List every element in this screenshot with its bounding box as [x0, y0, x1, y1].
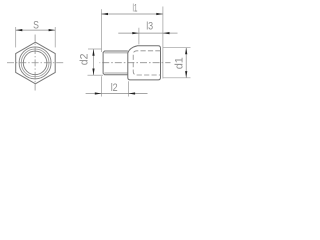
- dimension l2 left arrow tail: [86, 93, 102, 95]
- dimension d1 dimension line: [185, 48, 187, 78]
- dimension d1 down arrowhead: [185, 71, 187, 78]
- dimension S dimension line: [16, 29, 56, 31]
- svg-text:S: S: [33, 20, 39, 32]
- dimension l3 dimension line: [139, 32, 163, 34]
- hex body outline (front view): [16, 42, 56, 84]
- dimension l3 left arrowhead: [132, 32, 139, 34]
- dimension l1/l3 shared right extension line: [162, 7, 164, 79]
- dimension d2 dimension line: [93, 49, 95, 75]
- dimension l1 left extension line: [100, 9, 102, 52]
- dimension S right arrowhead: [49, 29, 56, 31]
- stud thread minor line bottom: [104, 72, 127, 74]
- thread major circle (front view middle circle): [21, 49, 49, 77]
- dimension d1 bottom extension line: [163, 77, 191, 79]
- svg-text:d2: d2: [79, 54, 91, 66]
- dimension l1 right arrowhead: [156, 13, 163, 15]
- dimension l2 right extension line: [128, 81, 130, 96]
- dimension S left extension line: [15, 27, 17, 47]
- front view vertical centerline: [34, 35, 36, 91]
- dimension l3 left arrow tail: [118, 32, 139, 34]
- dimension S left arrowhead: [16, 29, 23, 31]
- dimension l2 left extension line: [100, 76, 102, 96]
- dimension d1 top extension line: [163, 47, 191, 49]
- dimension l2 dimension line: [101, 93, 128, 95]
- dimension l1 left arrowhead: [101, 13, 108, 15]
- svg-text:l1: l1: [133, 3, 138, 15]
- dimension l1 dimension line: [101, 13, 162, 15]
- dimension d2 up arrowhead: [92, 49, 94, 56]
- stud thread minor line top: [104, 52, 127, 54]
- svg-text:l3: l3: [146, 21, 153, 33]
- dimension d2 down arrowhead: [92, 69, 94, 76]
- front view horizontal centerline: [7, 62, 65, 64]
- cylindrical body outline (side view): [128, 46, 161, 80]
- dimension S right extension line: [54, 27, 56, 47]
- hidden internal thread bore (dashed): [133, 51, 160, 75]
- threaded stud outline (side view): [103, 51, 128, 75]
- dimension d2 bottom extension line: [88, 74, 104, 76]
- dimension l2 right arrow tail: [129, 93, 148, 95]
- dimension l3 right arrowhead: [163, 32, 170, 34]
- chamfer circle (front view outer circle): [19, 47, 51, 79]
- dimension l2 right arrowhead: [129, 92, 136, 94]
- dimension d1 up arrowhead: [185, 48, 187, 55]
- dimension l3 right arrow tail: [163, 32, 178, 34]
- thread bore circle (front view inner circle): [23, 51, 47, 75]
- svg-text:l2: l2: [111, 82, 118, 94]
- dimension l3 left extension line: [138, 28, 140, 45]
- side view centerline: [100, 62, 171, 64]
- dimension d2 top extension line: [88, 48, 102, 50]
- dimension l2 left arrowhead: [95, 92, 102, 94]
- svg-text:d1: d1: [173, 57, 185, 69]
